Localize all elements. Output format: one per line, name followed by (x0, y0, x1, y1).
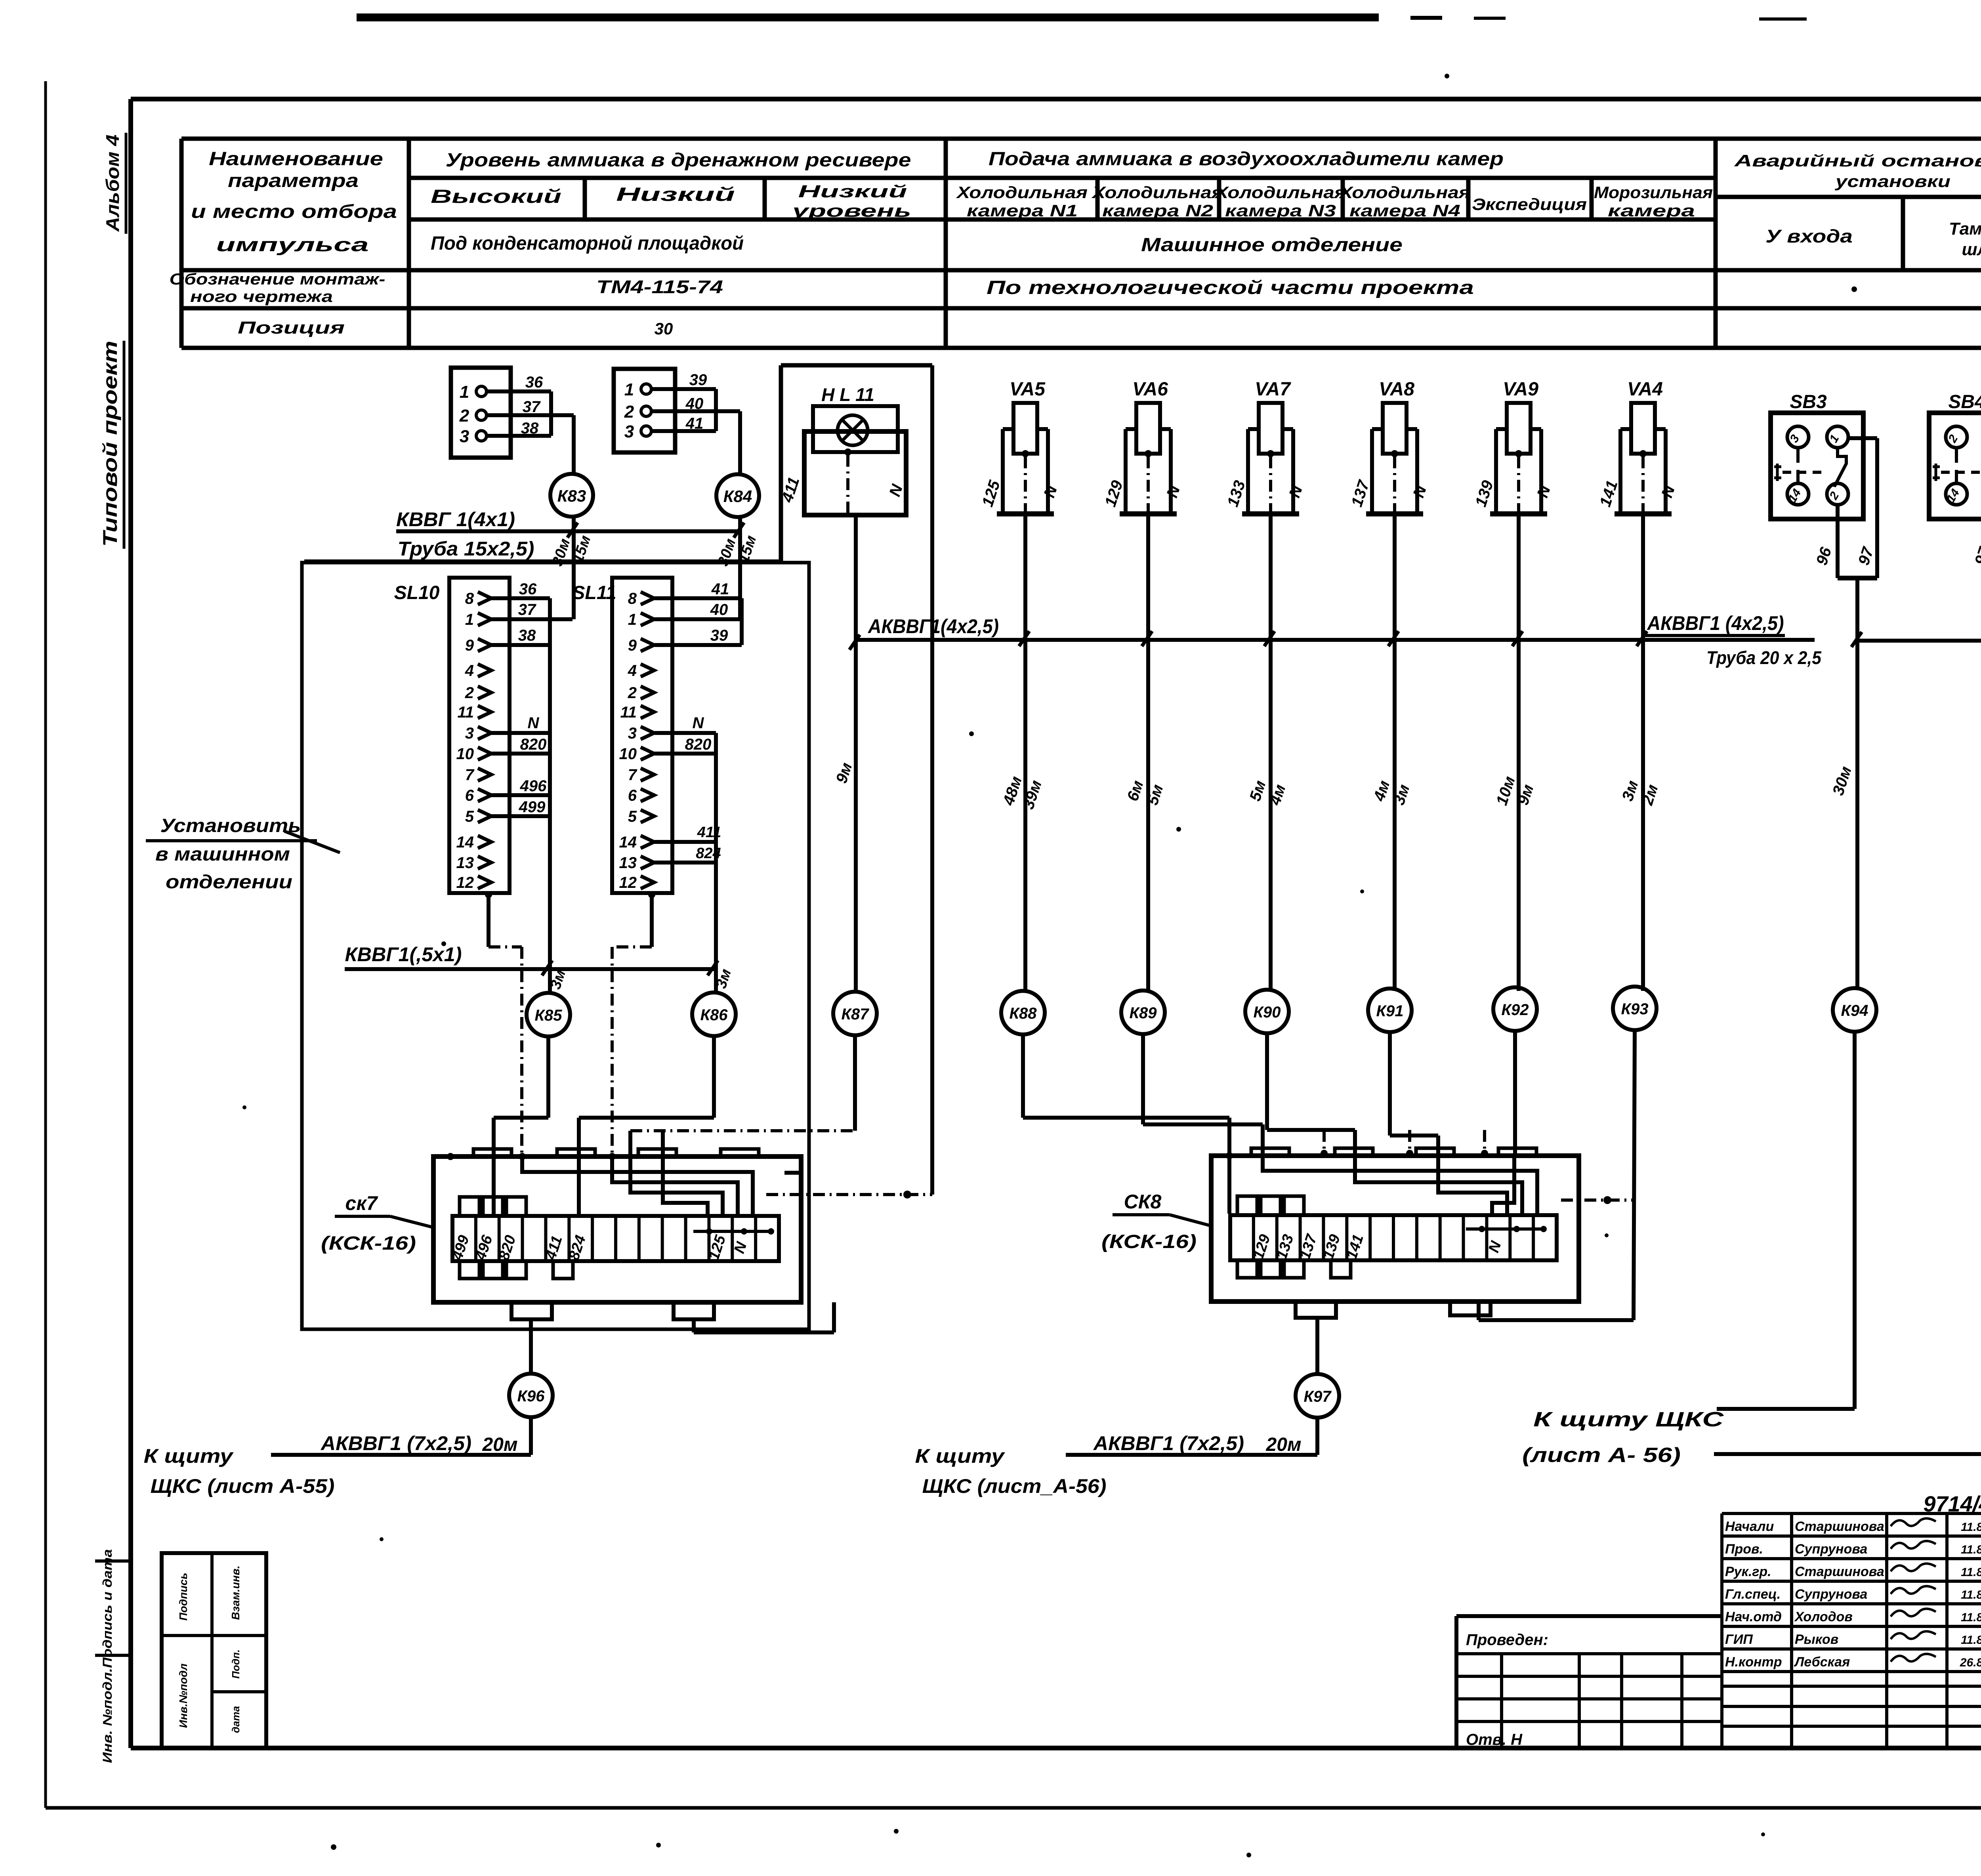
svg-text:6: 6 (465, 787, 474, 804)
svg-text:Пров.: Пров. (1725, 1542, 1763, 1557)
svg-text:3: 3 (628, 725, 637, 742)
svg-text:Холодильная: Холодильная (956, 183, 1088, 202)
svg-text:Супрунова: Супрунова (1795, 1587, 1867, 1602)
svg-text:К щиту: К щиту (915, 1445, 1006, 1467)
svg-text:10: 10 (619, 745, 637, 763)
svg-text:2: 2 (465, 684, 474, 702)
svg-text:Высокий: Высокий (431, 186, 561, 207)
svg-text:Старшинова: Старшинова (1795, 1564, 1884, 1579)
svg-text:8: 8 (628, 590, 637, 607)
svg-text:Труба 15х2,5): Труба 15х2,5) (398, 538, 534, 560)
svg-text:40: 40 (710, 601, 728, 618)
svg-text:11.85: 11.85 (1961, 1521, 1981, 1534)
svg-text:Наименование: Наименование (209, 149, 383, 170)
svg-text:14: 14 (456, 834, 474, 851)
svg-text:Инв.№подл: Инв.№подл (177, 1664, 189, 1728)
svg-text:Холодильная: Холодильная (1092, 183, 1223, 202)
svg-text:отделении: отделении (166, 872, 292, 893)
svg-text:Подпись и дата: Подпись и дата (100, 1549, 115, 1668)
svg-text:12: 12 (456, 874, 474, 891)
svg-text:41: 41 (711, 580, 729, 598)
svg-text:установки: установки (1834, 172, 1950, 191)
svg-text:К94: К94 (1841, 1002, 1868, 1019)
svg-text:3: 3 (460, 427, 469, 446)
svg-text:и место отбора: и место отбора (191, 201, 397, 222)
svg-text:11: 11 (457, 704, 474, 721)
svg-text:Установить: Установить (160, 815, 301, 836)
svg-text:36: 36 (519, 580, 537, 598)
svg-text:(КСК-16): (КСК-16) (321, 1233, 416, 1254)
svg-text:Уровень аммиака в дренажном: Уровень аммиака в дренажном ресивере (446, 150, 911, 171)
svg-text:Отв. Н: Отв. Н (1466, 1731, 1523, 1748)
svg-text:Рыков: Рыков (1795, 1632, 1838, 1647)
svg-text:5: 5 (465, 808, 474, 825)
svg-text:1: 1 (460, 382, 469, 402)
svg-text:Супрунова: Супрунова (1795, 1542, 1867, 1557)
svg-text:38: 38 (521, 420, 539, 437)
svg-text:Инв. №подл.: Инв. №подл. (100, 1668, 115, 1763)
svg-text:в машинном: в машинном (155, 844, 290, 865)
svg-text:По технологической части: По технологической части проекта (987, 277, 1474, 298)
svg-text:5: 5 (628, 808, 637, 825)
svg-text:2: 2 (628, 684, 637, 702)
svg-text:13: 13 (456, 854, 474, 872)
svg-text:К97: К97 (1303, 1388, 1332, 1405)
svg-text:Морозильная: Морозильная (1594, 183, 1713, 202)
svg-text:VA4: VA4 (1627, 379, 1663, 400)
svg-text:К86: К86 (700, 1006, 728, 1024)
svg-text:К83: К83 (557, 487, 586, 505)
svg-text:Аварийный останов всей: Аварийный останов всей (1734, 151, 1981, 170)
svg-text:К92: К92 (1501, 1001, 1529, 1019)
svg-text:параметра: параметра (228, 170, 359, 191)
svg-text:3: 3 (624, 422, 634, 441)
svg-text:820: 820 (520, 736, 547, 753)
svg-text:9: 9 (465, 637, 474, 654)
svg-text:40: 40 (685, 395, 704, 412)
svg-text:SL10: SL10 (394, 582, 440, 603)
svg-text:ТМ4-115-74: ТМ4-115-74 (596, 277, 723, 297)
svg-text:499: 499 (519, 798, 546, 816)
svg-text:6: 6 (628, 787, 637, 804)
svg-text:СК8: СК8 (1124, 1191, 1162, 1213)
svg-text:VA8: VA8 (1379, 379, 1414, 400)
svg-text:N: N (528, 714, 540, 732)
svg-text:VA6: VA6 (1132, 379, 1168, 400)
svg-text:АКВВГ1(4х2,5): АКВВГ1(4х2,5) (867, 615, 999, 637)
svg-text:ЩКС (лист_А-56): ЩКС (лист_А-56) (922, 1475, 1107, 1497)
svg-text:камера N3: камера N3 (1225, 201, 1336, 220)
svg-text:К щиту ЩКС: К щиту ЩКС (1533, 1408, 1724, 1431)
svg-text:Проведен:: Проведен: (1466, 1631, 1548, 1649)
svg-text:20м: 20м (1266, 1434, 1302, 1455)
svg-text:К96: К96 (517, 1387, 545, 1405)
svg-text:Начали: Начали (1725, 1519, 1774, 1534)
svg-text:37: 37 (518, 601, 536, 618)
svg-text:SB4: SB4 (1948, 391, 1981, 412)
svg-text:SL11: SL11 (572, 582, 616, 603)
svg-text:1: 1 (624, 380, 634, 399)
svg-text:У входа: У входа (1765, 226, 1853, 246)
svg-text:уровень: уровень (791, 201, 911, 221)
svg-text:К87: К87 (841, 1006, 869, 1023)
svg-text:Труба 20 х 2,5: Труба 20 х 2,5 (1706, 647, 1822, 668)
svg-text:ГИП: ГИП (1725, 1632, 1753, 1647)
svg-text:1: 1 (628, 611, 637, 628)
svg-text:шлюз: шлюз (1962, 240, 1981, 259)
svg-text:26.85: 26.85 (1960, 1656, 1981, 1669)
svg-text:Типовой проект: Типовой проект (99, 341, 121, 547)
svg-text:АКВВГ1 (7х2,5): АКВВГ1 (7х2,5) (1093, 1432, 1244, 1454)
svg-text:К93: К93 (1621, 1000, 1648, 1018)
svg-text:37: 37 (523, 398, 541, 416)
svg-text:Взам.инв.: Взам.инв. (229, 1565, 242, 1620)
svg-text:7: 7 (465, 766, 475, 784)
svg-text:11.85: 11.85 (1961, 1634, 1981, 1647)
svg-text:496: 496 (520, 777, 547, 795)
svg-text:Подп.: Подп. (230, 1649, 242, 1679)
svg-text:820: 820 (685, 736, 712, 753)
svg-text:ск7: ск7 (345, 1192, 378, 1214)
svg-text:импульса: импульса (216, 235, 369, 256)
svg-text:39: 39 (689, 371, 707, 389)
svg-text:13: 13 (619, 854, 637, 872)
svg-text:К щиту: К щиту (144, 1445, 234, 1467)
svg-text:Низкий: Низкий (616, 184, 735, 205)
svg-text:2: 2 (459, 406, 469, 426)
svg-text:дата: дата (230, 1706, 242, 1733)
svg-text:36: 36 (525, 374, 543, 391)
svg-text:ЩКС (лист А-55): ЩКС (лист А-55) (151, 1475, 335, 1497)
svg-text:АКВВГ1 (7х2,5): АКВВГ1 (7х2,5) (320, 1432, 471, 1454)
svg-text:камера: камера (1608, 201, 1695, 220)
svg-text:Низкий: Низкий (798, 182, 907, 201)
svg-text:N: N (693, 714, 704, 732)
svg-text:Машинное отделение: Машинное отделение (1141, 235, 1403, 256)
svg-text:Под конденсаторной площадк: Под конденсаторной площадкой (431, 233, 744, 254)
svg-text:11.85: 11.85 (1961, 1543, 1981, 1556)
svg-text:9: 9 (628, 637, 637, 654)
svg-text:К84: К84 (723, 487, 752, 506)
svg-text:Тамбур -: Тамбур - (1949, 219, 1981, 239)
svg-text:Н.контр: Н.контр (1725, 1655, 1782, 1670)
svg-text:Н L 11: Н L 11 (821, 384, 874, 405)
svg-text:Позиция: Позиция (238, 318, 345, 338)
svg-text:38: 38 (518, 627, 536, 644)
svg-text:Экспедиция: Экспедиция (1472, 195, 1587, 214)
svg-text:8: 8 (465, 590, 474, 607)
svg-text:КВВГ 1(4х1): КВВГ 1(4х1) (396, 508, 515, 531)
svg-text:14: 14 (619, 834, 637, 851)
svg-text:Лебская: Лебская (1794, 1655, 1850, 1670)
svg-text:11.85: 11.85 (1961, 1611, 1981, 1624)
svg-text:Холодильная: Холодильная (1339, 183, 1470, 202)
svg-text:VA9: VA9 (1503, 379, 1538, 400)
svg-text:(лист А- 56): (лист А- 56) (1522, 1444, 1681, 1467)
svg-text:VA7: VA7 (1255, 379, 1291, 400)
svg-text:4: 4 (628, 662, 637, 679)
svg-text:11: 11 (620, 704, 637, 721)
svg-text:12: 12 (619, 874, 637, 891)
svg-text:Нач.отд: Нач.отд (1725, 1609, 1782, 1624)
svg-text:Холодов: Холодов (1794, 1609, 1853, 1624)
svg-text:(КСК-16): (КСК-16) (1101, 1231, 1197, 1252)
svg-text:К91: К91 (1376, 1002, 1403, 1020)
svg-text:Подача аммиака в воздухоохл: Подача аммиака в воздухоохладители камер (989, 149, 1504, 170)
svg-text:11.85: 11.85 (1961, 1588, 1981, 1601)
svg-text:Гл.спец.: Гл.спец. (1725, 1587, 1781, 1602)
svg-text:10: 10 (456, 745, 474, 763)
svg-text:41: 41 (685, 415, 704, 432)
svg-text:АКВВГ1 (4х2,5): АКВВГ1 (4х2,5) (1647, 612, 1784, 634)
svg-text:7: 7 (628, 766, 637, 784)
svg-text:3: 3 (465, 725, 474, 742)
svg-text:К88: К88 (1009, 1005, 1037, 1022)
svg-text:20м: 20м (482, 1434, 518, 1455)
svg-text:Обозначение монтаж-: Обозначение монтаж- (170, 271, 386, 288)
svg-text:Подпись: Подпись (177, 1573, 189, 1621)
svg-text:КВВГ1(,5х1): КВВГ1(,5х1) (345, 943, 462, 966)
svg-text:Старшинова: Старшинова (1795, 1519, 1884, 1534)
svg-text:К85: К85 (534, 1007, 562, 1024)
svg-text:SB3: SB3 (1790, 391, 1827, 412)
svg-text:Альбом 4: Альбом 4 (102, 135, 123, 232)
svg-text:11.85: 11.85 (1961, 1566, 1981, 1579)
svg-text:VA5: VA5 (1010, 379, 1046, 400)
svg-text:камера N2: камера N2 (1102, 201, 1213, 220)
svg-text:К90: К90 (1253, 1004, 1281, 1021)
svg-text:Холодильная: Холодильная (1214, 183, 1346, 202)
svg-text:39: 39 (710, 627, 728, 644)
svg-text:ного чертежа: ного чертежа (190, 288, 333, 305)
svg-text:30: 30 (655, 319, 673, 338)
svg-text:4: 4 (465, 662, 474, 679)
svg-text:камера N4: камера N4 (1349, 201, 1460, 220)
svg-text:камера N1: камера N1 (967, 201, 1078, 220)
svg-text:1: 1 (465, 611, 474, 628)
svg-text:К89: К89 (1129, 1004, 1157, 1022)
svg-text:Рук.гр.: Рук.гр. (1725, 1564, 1771, 1579)
svg-text:2: 2 (624, 402, 634, 422)
